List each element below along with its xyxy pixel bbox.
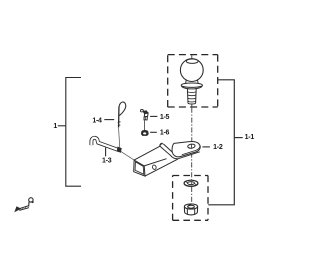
logo doodle shaft: [19, 206, 29, 211]
wire: 1-5 leader dash: [150, 115, 157, 117]
centerline below shank to box edge: [191, 104, 193, 107]
wire: clip to pin alignment line: [119, 128, 120, 147]
lock washer: [184, 180, 198, 186]
wire: 1 tick: [58, 125, 66, 127]
ball neck: [186, 80, 199, 84]
svg-text:1-1: 1-1: [245, 134, 255, 141]
tube bottom edge: [145, 159, 178, 176]
wire: 1-6 leader dash: [150, 131, 157, 133]
clip 1-4 lower leg ticks: [118, 122, 121, 126]
ball flange: [181, 83, 202, 87]
wire: 1-2 leader dash: [202, 146, 210, 148]
ball top flat: [186, 59, 198, 63]
centerline above ball: [191, 55, 193, 59]
tube front face inner wall: [135, 162, 144, 174]
wire: left bracket for item 1: [58, 78, 81, 187]
logo doodle bottom-left: arrowhead: [15, 207, 21, 212]
wire: 1-3 leader line: [105, 148, 107, 157]
wire: 1-5 to 1-6 centerline: [144, 120, 146, 130]
centerline ball box to tongue hole: [191, 108, 193, 147]
tongue top face front edge: [182, 147, 200, 155]
svg-text:1-2: 1-2: [213, 144, 223, 151]
nut dashed box: [173, 176, 208, 221]
riser tip inner line: [161, 144, 163, 145]
ball dashed box: [168, 55, 218, 107]
tongue hole: [187, 144, 195, 149]
wire: pin to drawbar alignment line: [121, 152, 134, 161]
wire: 1-1 tick: [234, 137, 242, 139]
drawbar 1-2: tube body: [134, 146, 178, 176]
tube front face: [134, 160, 145, 176]
svg-text:1: 1: [53, 123, 57, 130]
centerline tongue to washer: [191, 152, 193, 180]
centerline through washer hole: [191, 182, 193, 184]
svg-text:1-6: 1-6: [160, 130, 170, 137]
pin 1-3 dark tip: [117, 147, 121, 152]
wire: 1-4 leader dash: [104, 119, 114, 121]
hex nut: [184, 204, 197, 215]
pin 1-3 body: [91, 138, 119, 151]
tube side hole: [152, 165, 157, 170]
tongue hole inner edge: [189, 146, 193, 149]
clip 1-4 loop: [119, 102, 126, 116]
ball threaded shank: [187, 89, 196, 103]
tube top-front ridge: [144, 159, 166, 166]
centerline through tongue hole: [191, 144, 193, 148]
drawbar riser step and lower flange: [160, 143, 200, 159]
wire: right connector from ball box to 1-1 bracket and down to nut box: [208, 80, 243, 205]
clip 1-4 leg: [118, 107, 120, 128]
riser upper edge and bend wrap: [163, 144, 179, 157]
svg-text:1-3: 1-3: [102, 158, 112, 165]
svg-text:1-5: 1-5: [160, 114, 170, 121]
bolt 1-5: [140, 110, 148, 120]
nut 1-6: [142, 130, 149, 135]
riser lower edge, bend and flange bottom edge: [160, 146, 200, 159]
drawbar tongue plate: [172, 141, 200, 156]
tube top-back edge: [134, 146, 160, 160]
centerline washer to nut: [191, 187, 193, 204]
svg-text:1-4: 1-4: [92, 117, 102, 124]
hitch ball: sphere: [180, 59, 203, 104]
logo doodle vertical and loop: [28, 202, 30, 207]
riser tip arc: [160, 143, 163, 146]
